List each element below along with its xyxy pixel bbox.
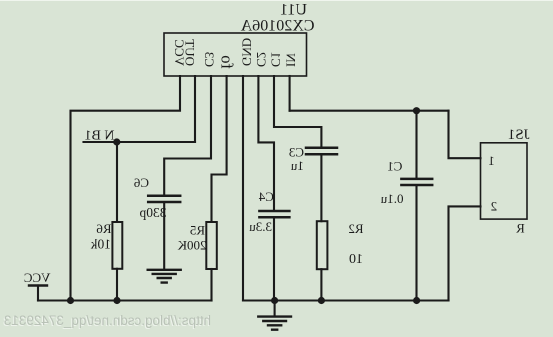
wire GND rail to JS1 pin2 [449,206,481,300]
pin label VCC [172,39,187,66]
junction GND rail / C4-ground [271,297,278,304]
pin label fo [218,55,237,69]
label R6 [96,221,112,236]
svg-text:R2: R2 [348,221,363,236]
label C6 [133,175,149,190]
label U11 [280,2,307,19]
resistor R5 body [206,222,217,269]
svg-text:IN: IN [284,53,299,67]
svg-text:fo: fo [218,55,237,69]
value 200K [177,237,207,252]
wire node B1 horizontal [84,141,196,143]
label CX20106A [240,18,314,35]
capacitor C3 plates [306,148,337,154]
svg-text:N B1: N B1 [85,129,115,144]
top light edge [0,0,553,1]
wire R6 bottom [116,269,118,301]
junction GND rail / C1 [413,297,420,304]
capacitor C4 plates [259,211,289,217]
connector JS1 body [481,143,528,219]
wire C1 bottom [415,186,417,301]
ground stem below rail [274,301,276,317]
svg-text:C3: C3 [202,52,217,67]
label R2 [348,221,363,236]
svg-text:R6: R6 [96,221,112,236]
capacitor C1 plates [401,179,432,185]
wire IN rail to JS1 pin1 [449,111,481,159]
pin number 2 [491,199,498,214]
pin label GND [240,38,255,66]
svg-text:C1: C1 [269,52,284,67]
wire left VCC rail [38,299,212,301]
junction IN rail / C1 [413,107,420,114]
value 0.1u [380,191,403,206]
value 3.3u [249,219,272,234]
svg-text:1u: 1u [290,158,304,173]
resistor R2 body [317,221,328,269]
label C3 [289,145,304,160]
svg-text:330p: 330p [139,205,166,220]
svg-text:0.1u: 0.1u [380,191,403,206]
pin label C3 [202,52,217,67]
svg-text:R: R [516,221,525,236]
wire pin3 C2 to C4 [258,76,274,210]
svg-text:10: 10 [349,252,363,267]
pin label IN [284,53,299,67]
wire top IN rail [290,110,449,112]
IC U11 body [164,33,307,76]
wire C4 bottom [273,218,275,300]
svg-text:C2: C2 [254,52,269,67]
svg-text:200K: 200K [177,237,207,252]
value 10 [349,252,363,267]
wire pin2 C1 to C3 cap [274,76,321,147]
node label B1 N [85,129,115,144]
watermark [4,313,211,328]
label R5 [190,223,205,238]
wire R2 bottom [320,269,322,300]
wire pin7 OUT down to node B1 [194,76,196,142]
pin label C1 [269,52,284,67]
wire pin4 GND down [242,76,244,301]
wire C3 cap to R2 [320,155,322,221]
svg-text:OUT: OUT [183,39,198,66]
pin label OUT [183,39,198,66]
svg-text:1: 1 [488,153,495,168]
ground symbol right [258,317,291,330]
wire pin5 fo to R5 [212,76,227,222]
wire R5 bottom [210,269,212,301]
svg-text:R5: R5 [190,223,205,238]
svg-text:2: 2 [491,199,498,214]
value 10k [91,237,112,252]
pin number 1 [488,153,495,168]
svg-text:U11: U11 [280,2,307,19]
capacitor C6 plates [148,196,180,202]
junction GND rail / R2 [318,297,325,304]
svg-text:10k: 10k [91,237,112,252]
junction VCC rail / R6 [113,297,120,304]
svg-text:C4: C4 [258,189,274,204]
wire pin8 VCC down-left to VCC rail [71,76,181,301]
wire R6 branch down [116,142,118,222]
svg-text:GND: GND [240,38,255,66]
power symbol VCC bar and stem [37,286,39,301]
label JS1 [508,127,530,143]
wire C6 to ground [163,203,165,269]
pin label C2 [254,52,269,67]
power label VCC [24,270,51,285]
junction node B1 / R6 [113,138,120,145]
label C1 [387,158,402,173]
svg-text:https://blog.csdn.net/qq_37429: https://blog.csdn.net/qq_37429313 [4,313,211,328]
wire C1 branch down [415,111,417,178]
svg-text:CX20106A: CX20106A [240,18,314,35]
ground under C6 [148,270,181,283]
watermark shadow [3,314,210,329]
value 1u [290,158,304,173]
wire pin1 IN down [289,76,291,111]
svg-text:3.3u: 3.3u [249,219,272,234]
resistor R6 body [112,222,122,269]
wire pin6 C3 to C6 [164,76,211,195]
junction VCC rail / pin8 wire [67,297,74,304]
svg-text:C1: C1 [387,158,402,173]
label R [516,221,525,236]
label C4 [258,189,274,204]
wire right GND rail [243,299,449,301]
svg-text:C6: C6 [133,175,149,190]
svg-text:VCC: VCC [24,270,51,285]
svg-text:JS1: JS1 [508,127,530,143]
value 330p [139,205,166,220]
